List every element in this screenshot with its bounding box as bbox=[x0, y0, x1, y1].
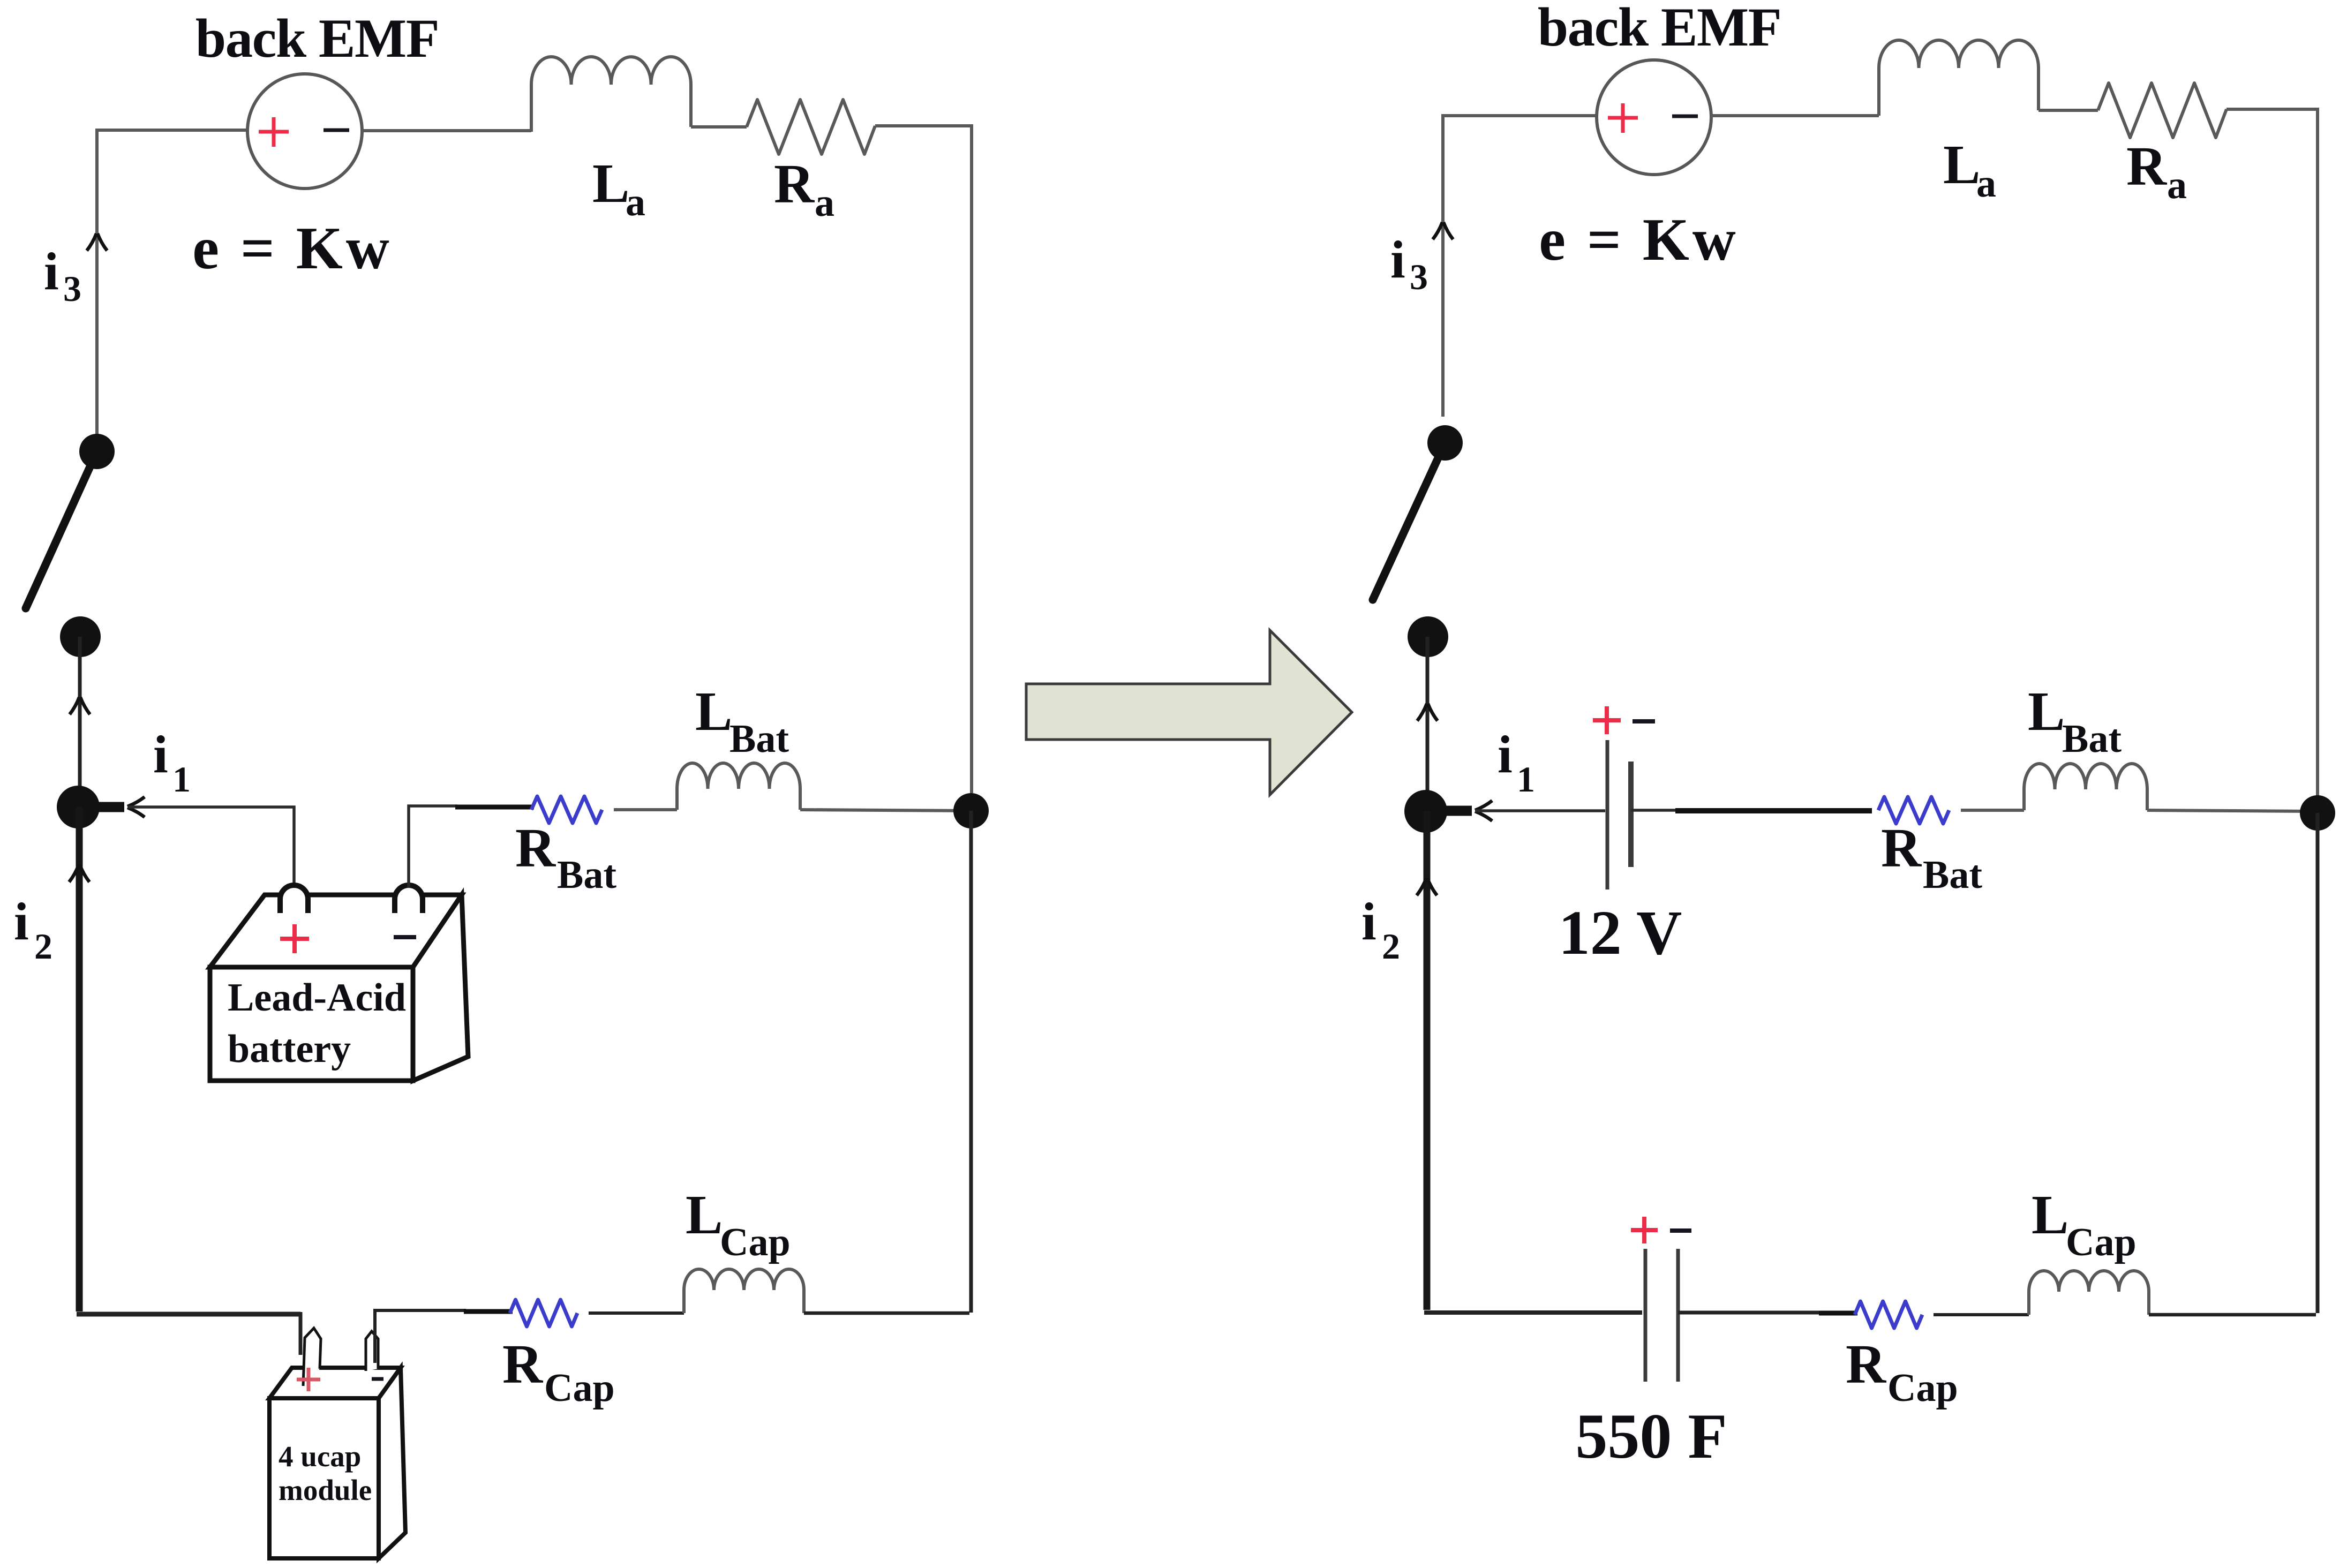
inductor LCap (right) bbox=[2029, 1271, 2149, 1315]
svg-text:battery: battery bbox=[228, 1027, 351, 1071]
wire: Ra to top-right corner, right vertical down to node B (left) bbox=[875, 126, 972, 793]
svg-text:2: 2 bbox=[1382, 926, 1400, 967]
svg-text:back EMF: back EMF bbox=[1538, 0, 1781, 58]
svg-text:Cap: Cap bbox=[544, 1366, 615, 1410]
svg-text:a: a bbox=[2167, 163, 2187, 207]
battery symbol 12 V: - short plate (right) bbox=[1628, 762, 1634, 867]
capacitor 550 F: - plate (right) bbox=[1676, 1249, 1680, 1382]
wire: node A to battery + terminal (left) bbox=[127, 807, 294, 888]
wire: LCap to bottom-right corner (left) bbox=[804, 1311, 969, 1315]
wire: switch to node A (left) bbox=[78, 637, 82, 807]
wire: RBat to LBat (right) bbox=[1961, 809, 2024, 812]
ultracapacitor module box (4 ucap) bbox=[269, 1328, 405, 1558]
svg-text:Cap: Cap bbox=[2066, 1220, 2137, 1264]
wire: battery - terminal up and right to RBat (left) bbox=[409, 806, 534, 888]
svg-text:i: i bbox=[1390, 230, 1405, 289]
capacitor 550 F: + plate (right) bbox=[1644, 1249, 1648, 1382]
svg-text:1: 1 bbox=[172, 759, 191, 800]
svg-text:Cap: Cap bbox=[1887, 1366, 1958, 1410]
wire: node D down to bottom-right corner (right) bbox=[2316, 813, 2320, 1313]
label: LCap (right) bbox=[2032, 1184, 2137, 1264]
label: LBat (right) bbox=[2028, 681, 2122, 761]
switch S2 (right) bbox=[1373, 425, 1463, 657]
svg-text:Bat: Bat bbox=[1923, 853, 1982, 897]
current arrow on i3 branch below switch (right) bbox=[1417, 704, 1438, 721]
wire: LBat to node B (left) bbox=[800, 810, 972, 811]
svg-text:L: L bbox=[695, 681, 732, 742]
svg-text:R: R bbox=[774, 153, 815, 215]
label: back EMF (left) bbox=[195, 8, 439, 69]
wire: RBat to LBat (left) bbox=[614, 808, 677, 811]
label: Ra (right) bbox=[2126, 135, 2187, 207]
svg-text:4 ucap: 4 ucap bbox=[279, 1440, 361, 1473]
svg-text:a: a bbox=[815, 181, 834, 225]
svg-text:R: R bbox=[502, 1333, 544, 1395]
svg-text:R: R bbox=[1846, 1333, 1887, 1395]
svg-text:R: R bbox=[515, 817, 556, 879]
svg-text:a: a bbox=[626, 180, 645, 224]
resistor RCap (right, blue) bbox=[1855, 1301, 1922, 1328]
label: RCap (right) bbox=[1846, 1333, 1958, 1410]
svg-text:back EMF: back EMF bbox=[195, 8, 439, 69]
back EMF source E1 (left) bbox=[247, 74, 362, 189]
back EMF source E2 (right) bbox=[1597, 60, 1711, 175]
svg-text:L: L bbox=[592, 153, 629, 214]
battery: Lead-Acid battery box bbox=[210, 885, 468, 1081]
wire: source to inductor La (left) bbox=[362, 129, 531, 132]
label: LBat (left) bbox=[695, 681, 789, 761]
label: 12V battery + polarity bbox=[1593, 706, 1621, 734]
arrow: big block arrow between circuits bbox=[1026, 630, 1352, 795]
inductor LCap (left) bbox=[684, 1269, 804, 1313]
node D junction dot (right) bbox=[2300, 795, 2335, 831]
svg-text:a: a bbox=[1976, 162, 1996, 206]
wire: capacitor - plate to RCap (right) bbox=[1678, 1313, 1857, 1313]
svg-text:e = Kw: e = Kw bbox=[192, 215, 393, 282]
label: Ra bbox=[774, 153, 834, 225]
label: i3 (right) bbox=[1390, 230, 1428, 297]
wire: LBat to node D (right) bbox=[2147, 810, 2318, 811]
wire: left top loop (vertical riser + top horizontal to source) bbox=[97, 130, 248, 435]
svg-text:R: R bbox=[2126, 135, 2168, 197]
label: 550 F text bbox=[1575, 1400, 1727, 1472]
label: 12 V text bbox=[1559, 898, 1682, 968]
label: capacitor - polarity bbox=[1670, 1228, 1691, 1233]
label: RCap (left) bbox=[502, 1333, 615, 1410]
wire: La to Ra (right) bbox=[2038, 109, 2098, 112]
svg-text:2: 2 bbox=[34, 926, 52, 967]
svg-text:i: i bbox=[14, 892, 29, 951]
wire: LCap to bottom-right corner (right) bbox=[2149, 1313, 2316, 1317]
label: La bbox=[592, 153, 645, 224]
resistor RCap (left, blue) bbox=[510, 1300, 577, 1326]
label: i1 (left) bbox=[153, 725, 191, 800]
label: RBat (left) bbox=[515, 817, 616, 897]
svg-text:i: i bbox=[1361, 892, 1376, 951]
svg-text:12 V: 12 V bbox=[1559, 898, 1682, 968]
battery symbol 12 V: + long plate (right) bbox=[1606, 740, 1609, 889]
svg-text:Cap: Cap bbox=[720, 1220, 791, 1264]
resistor Ra (right) bbox=[2098, 83, 2226, 138]
wire: RCap to LCap (right) bbox=[1934, 1313, 2029, 1316]
current arrow i1 with stub (right) bbox=[1426, 801, 1492, 821]
svg-text:550 F: 550 F bbox=[1575, 1400, 1727, 1472]
svg-text:i: i bbox=[153, 725, 168, 784]
wire: source to inductor La (right) bbox=[1711, 114, 1879, 117]
svg-text:Bat: Bat bbox=[729, 717, 789, 761]
svg-text:3: 3 bbox=[1410, 257, 1428, 297]
wire: La to Ra (left) bbox=[691, 125, 747, 129]
wire: ucap - terminal up and right to RCap (left) bbox=[375, 1310, 513, 1363]
svg-text:1: 1 bbox=[1517, 759, 1535, 800]
svg-text:3: 3 bbox=[63, 268, 81, 309]
current arrow on i3 branch below switch (left) bbox=[70, 697, 90, 714]
label: 12V battery - polarity bbox=[1633, 719, 1655, 723]
inductor LBat (right) bbox=[2024, 764, 2147, 810]
current arrow i2 (left) bbox=[69, 865, 89, 882]
inductor LBat (left) bbox=[677, 763, 800, 810]
wire: switch to node C (right) bbox=[1426, 637, 1430, 811]
svg-text:e = Kw: e = Kw bbox=[1539, 207, 1739, 273]
svg-text:i: i bbox=[1498, 725, 1513, 784]
wire: left top loop (vertical riser + top horizontal to source) (right) bbox=[1443, 116, 1598, 417]
current arrow i1 with stub (left) bbox=[78, 797, 145, 817]
label: e = Kw (right) bbox=[1539, 207, 1739, 273]
inductor La (left) bbox=[531, 57, 691, 132]
svg-text:L: L bbox=[686, 1184, 723, 1246]
label: LCap (left) bbox=[686, 1184, 791, 1264]
label: Lead-Acid battery text bbox=[228, 976, 406, 1071]
label: RBat (right) bbox=[1881, 817, 1982, 897]
label: back EMF (right) bbox=[1538, 0, 1781, 58]
label: ucap - polarity bbox=[372, 1377, 383, 1381]
label: ucap + polarity bbox=[297, 1368, 320, 1391]
node A junction dot (left) bbox=[57, 786, 100, 828]
svg-text:i: i bbox=[44, 242, 59, 301]
svg-text:module: module bbox=[279, 1474, 372, 1506]
wire: node A down (i2 branch) and bottom run to ucap + (left) bbox=[77, 807, 300, 1355]
switch S1 (left) bbox=[26, 434, 115, 657]
svg-text:Bat: Bat bbox=[2062, 717, 2122, 761]
label: battery + polarity (left) bbox=[280, 924, 309, 953]
svg-text:L: L bbox=[2032, 1184, 2068, 1246]
wire: battery - plate to RBat (right) bbox=[1631, 810, 1872, 811]
svg-text:Bat: Bat bbox=[557, 853, 616, 897]
svg-text:L: L bbox=[2028, 681, 2065, 742]
wire: Ra to top-right corner, right vertical down to node D (right) bbox=[2226, 109, 2318, 796]
current arrow i3 (right) bbox=[1433, 222, 1453, 239]
label: e = Kw (left) bbox=[192, 215, 393, 282]
label: i2 (right) bbox=[1361, 892, 1400, 967]
wire: RCap to LCap (left) bbox=[589, 1311, 684, 1315]
svg-text:R: R bbox=[1881, 817, 1922, 879]
inductor La (right) bbox=[1879, 40, 2038, 116]
label: i1 (right) bbox=[1498, 725, 1535, 800]
wire: node C down (i2 branch) and bottom run to capacitor (right) bbox=[1424, 811, 1642, 1313]
label: battery - polarity (left) bbox=[394, 935, 416, 939]
resistor Ra (left) bbox=[747, 100, 875, 154]
node B junction dot (left) bbox=[953, 793, 989, 828]
label: i2 (left) bbox=[14, 892, 52, 967]
label: capacitor + polarity bbox=[1631, 1217, 1658, 1243]
label: La (right) bbox=[1943, 134, 1996, 206]
svg-text:Lead-Acid: Lead-Acid bbox=[228, 976, 406, 1020]
label: i3 (left) bbox=[44, 242, 81, 309]
wire: node B down to bottom-right corner (left) bbox=[969, 811, 973, 1313]
current arrow i2 (right) bbox=[1417, 878, 1437, 895]
svg-text:L: L bbox=[1943, 134, 1980, 195]
resistor RBat (right, blue) bbox=[1878, 797, 1949, 824]
current arrow i3 (left) bbox=[87, 233, 107, 251]
wire: node C to 12V battery + plate (right) bbox=[1475, 809, 1605, 812]
node C junction dot (right) bbox=[1404, 790, 1447, 833]
label: 4 ucap module text bbox=[279, 1440, 372, 1506]
resistor RBat (left, blue) bbox=[531, 796, 602, 823]
